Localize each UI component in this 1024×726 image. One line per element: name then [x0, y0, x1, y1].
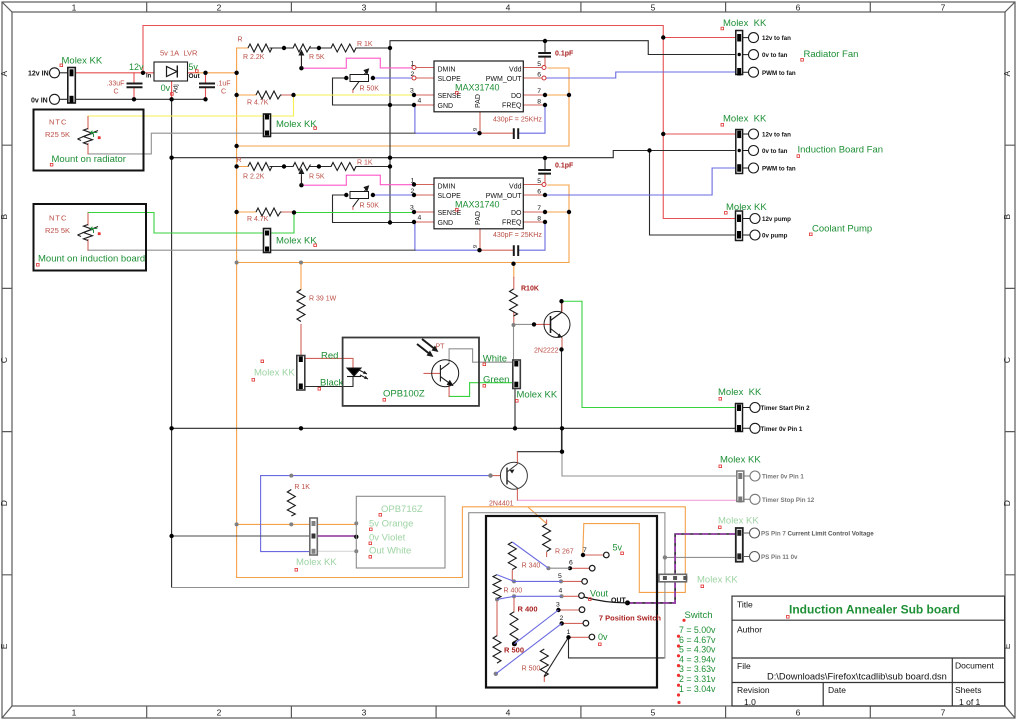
svg-text:R 39 1W: R 39 1W	[309, 296, 337, 303]
svg-text:5: 5	[537, 61, 541, 68]
svg-text:0.1pF: 0.1pF	[555, 163, 574, 170]
svg-text:6: 6	[537, 189, 541, 196]
svg-text:Out: Out	[189, 73, 201, 80]
svg-text:12v: 12v	[129, 62, 144, 72]
svg-text:R25 5K: R25 5K	[45, 226, 70, 235]
svg-text:Molex KK: Molex KK	[296, 557, 337, 568]
svg-text:Molex KK: Molex KK	[720, 455, 761, 466]
svg-text:NTC: NTC	[49, 213, 67, 222]
svg-text:MAX31740: MAX31740	[455, 200, 500, 210]
svg-text:Vdd: Vdd	[509, 66, 522, 73]
svg-text:4 = 3.94v: 4 = 3.94v	[679, 654, 716, 664]
svg-text:R 2.2K: R 2.2K	[243, 54, 265, 61]
svg-text:3 = 3.63v: 3 = 3.63v	[679, 664, 716, 674]
svg-text:Molex KK: Molex KK	[723, 114, 767, 125]
svg-text:R 5K: R 5K	[309, 54, 325, 61]
svg-text:A: A	[1002, 70, 1012, 76]
svg-text:MAX31740: MAX31740	[455, 83, 500, 93]
svg-text:2: 2	[411, 71, 415, 78]
svg-text:9: 9	[473, 128, 479, 131]
svg-text:DO: DO	[511, 93, 522, 100]
svg-text:430pF = 25KHz: 430pF = 25KHz	[493, 116, 542, 123]
svg-text:R 400: R 400	[518, 605, 538, 614]
svg-text:E: E	[0, 643, 9, 649]
svg-text:Revision: Revision	[737, 685, 770, 695]
svg-text:Date: Date	[828, 685, 846, 695]
svg-text:2: 2	[217, 708, 222, 718]
svg-text:2N2222: 2N2222	[534, 348, 559, 355]
svg-text:Molex KK: Molex KK	[718, 516, 759, 527]
svg-text:OPB100Z: OPB100Z	[383, 389, 425, 400]
svg-text:7 Position Switch: 7 Position Switch	[599, 614, 662, 623]
svg-text:Switch: Switch	[685, 610, 713, 621]
svg-text:0v to fan: 0v to fan	[762, 148, 788, 155]
svg-text:Radiator Fan: Radiator Fan	[804, 49, 859, 60]
svg-text:PAD: PAD	[475, 211, 482, 225]
svg-text:4: 4	[418, 98, 422, 105]
svg-text:File: File	[737, 661, 751, 671]
svg-text:Molex KK: Molex KK	[726, 202, 767, 213]
svg-text:3: 3	[410, 205, 414, 212]
svg-text:12v pump: 12v pump	[762, 216, 791, 223]
svg-text:R 50K: R 50K	[360, 203, 380, 210]
svg-text:R 500: R 500	[504, 646, 524, 655]
svg-text:Molex KK: Molex KK	[276, 236, 317, 247]
svg-text:0v: 0v	[161, 83, 171, 93]
svg-text:5v: 5v	[188, 62, 198, 72]
svg-text:NTC: NTC	[49, 117, 67, 126]
svg-text:2: 2	[560, 615, 564, 622]
svg-text:5v 1A LVR: 5v 1A LVR	[160, 49, 198, 58]
svg-text:7: 7	[537, 205, 541, 212]
svg-text:1 = 3.04v: 1 = 3.04v	[679, 684, 716, 694]
svg-text:R 1K: R 1K	[357, 41, 373, 48]
svg-text:4: 4	[418, 215, 422, 222]
svg-text:Title: Title	[737, 600, 753, 610]
svg-text:12v to fan: 12v to fan	[762, 132, 791, 139]
svg-text:0v pump: 0v pump	[762, 233, 788, 240]
svg-text:C: C	[0, 357, 9, 363]
svg-text:Induction Board Fan: Induction Board Fan	[798, 145, 884, 156]
svg-text:E: E	[1002, 643, 1012, 649]
svg-text:4: 4	[506, 3, 511, 13]
svg-text:R 2.2K: R 2.2K	[243, 174, 265, 181]
svg-text:Vout: Vout	[590, 589, 609, 599]
svg-text:0v Violet: 0v Violet	[369, 533, 406, 544]
svg-text:1.0: 1.0	[744, 697, 756, 707]
svg-text:12v IN: 12v IN	[28, 71, 49, 78]
svg-text:3: 3	[556, 602, 560, 609]
svg-text:R 340: R 340	[522, 563, 541, 570]
svg-text:Timer Start Pin 2: Timer Start Pin 2	[761, 405, 811, 412]
svg-text:OUT: OUT	[611, 598, 627, 605]
svg-text:Molex KK: Molex KK	[718, 387, 762, 398]
svg-text:0.1pF: 0.1pF	[555, 51, 574, 58]
svg-text:Adj: Adj	[174, 84, 180, 93]
svg-text:R 267: R 267	[555, 549, 574, 556]
svg-text:FREQ: FREQ	[502, 103, 522, 110]
svg-text:Black: Black	[320, 378, 343, 389]
svg-text:D:\Downloads\Firefox\tcadlib\s: D:\Downloads\Firefox\tcadlib\sub board.d…	[767, 672, 947, 682]
svg-text:6: 6	[796, 708, 801, 718]
svg-text:R: R	[237, 157, 242, 164]
svg-text:SLOPE: SLOPE	[438, 76, 462, 83]
svg-text:2: 2	[411, 188, 415, 195]
svg-text:7 = 5.00v: 7 = 5.00v	[679, 625, 716, 635]
svg-text:Timer 0v Pin 1: Timer 0v Pin 1	[762, 474, 804, 481]
svg-text:R25 5K: R25 5K	[45, 130, 70, 139]
svg-text:R 50K: R 50K	[360, 86, 380, 93]
svg-text:D: D	[0, 500, 9, 506]
svg-text:B: B	[1002, 214, 1012, 220]
svg-text:C: C	[1002, 357, 1012, 363]
svg-text:6: 6	[796, 3, 801, 13]
svg-text:R 400: R 400	[504, 588, 523, 595]
svg-text:C: C	[114, 89, 119, 96]
svg-text:.33uF: .33uF	[107, 81, 125, 88]
svg-text:A: A	[0, 70, 9, 76]
svg-text:2N4401: 2N4401	[489, 501, 514, 508]
svg-text:B: B	[0, 214, 9, 220]
svg-text:1: 1	[411, 178, 415, 185]
svg-text:White: White	[483, 354, 507, 365]
svg-text:2 = 3.31v: 2 = 3.31v	[679, 674, 716, 684]
svg-text:5: 5	[537, 178, 541, 185]
svg-text:Author: Author	[737, 625, 762, 635]
svg-text:9: 9	[473, 245, 479, 248]
svg-text:3: 3	[362, 708, 367, 718]
svg-text:R 1K: R 1K	[294, 484, 310, 491]
svg-text:OPB716Z: OPB716Z	[381, 504, 423, 515]
svg-text:Timer 0v Pin 1: Timer 0v Pin 1	[761, 426, 803, 433]
svg-text:6: 6	[569, 560, 573, 567]
svg-text:Vdd: Vdd	[509, 183, 522, 190]
svg-text:PWM to fan: PWM to fan	[762, 166, 796, 173]
svg-text:Red: Red	[321, 351, 338, 362]
svg-text:2: 2	[217, 3, 222, 13]
svg-text:SLOPE: SLOPE	[438, 193, 462, 200]
svg-text:5: 5	[651, 708, 656, 718]
svg-text:5v: 5v	[613, 543, 623, 553]
svg-text:Molex KK: Molex KK	[723, 18, 767, 29]
svg-text:7: 7	[941, 708, 946, 718]
svg-text:6 = 4.67v: 6 = 4.67v	[679, 635, 716, 645]
svg-text:Timer Stop Pin 12: Timer Stop Pin 12	[762, 497, 815, 504]
svg-text:Molex KK: Molex KK	[254, 368, 295, 379]
svg-text:Molex KK: Molex KK	[697, 575, 738, 586]
svg-text:7: 7	[537, 88, 541, 95]
svg-text:DO: DO	[511, 210, 522, 217]
svg-text:8: 8	[537, 215, 541, 222]
svg-text:PS Pin 11 0v: PS Pin 11 0v	[761, 554, 798, 561]
svg-text:DMIN: DMIN	[438, 183, 456, 190]
svg-text:430pF = 25KHz: 430pF = 25KHz	[493, 232, 542, 239]
svg-text:Out White: Out White	[369, 546, 411, 557]
svg-text:Mount on induction board: Mount on induction board	[38, 254, 145, 265]
svg-text:12v to fan: 12v to fan	[762, 35, 791, 42]
svg-text:0v to fan: 0v to fan	[762, 52, 788, 59]
svg-text:R 4.7K: R 4.7K	[247, 99, 269, 106]
svg-text:PT: PT	[436, 344, 446, 351]
svg-text:3: 3	[362, 3, 367, 13]
svg-text:6: 6	[537, 72, 541, 79]
svg-text:DMIN: DMIN	[438, 66, 456, 73]
svg-text:PAD: PAD	[475, 94, 482, 108]
svg-text:Induction Annealer Sub board: Induction Annealer Sub board	[789, 603, 960, 617]
svg-text:In: In	[146, 74, 152, 80]
svg-text:1: 1	[411, 61, 415, 68]
svg-text:R10K: R10K	[521, 286, 539, 293]
svg-text:.1uF: .1uF	[217, 81, 231, 88]
svg-text:Sheets: Sheets	[955, 685, 981, 695]
svg-text:PWM_OUT: PWM_OUT	[486, 193, 523, 200]
svg-text:4: 4	[559, 588, 563, 595]
svg-text:Mount on radiator: Mount on radiator	[52, 154, 126, 165]
svg-text:7: 7	[583, 547, 587, 554]
svg-text:Molex KK: Molex KK	[62, 56, 103, 67]
svg-text:PS Pin 7 Current Limit Control: PS Pin 7 Current Limit Control Voltage	[761, 531, 874, 538]
svg-text:Molex KK: Molex KK	[517, 390, 558, 401]
svg-text:0v IN: 0v IN	[31, 97, 48, 104]
svg-text:R 1K: R 1K	[357, 160, 373, 167]
svg-text:1 of 1: 1 of 1	[959, 697, 981, 707]
svg-text:PWM_OUT: PWM_OUT	[486, 76, 523, 83]
svg-text:Green: Green	[483, 375, 509, 386]
svg-text:7: 7	[941, 3, 946, 13]
svg-text:FREQ: FREQ	[502, 220, 522, 227]
svg-text:Document: Document	[955, 661, 994, 671]
svg-text:GND: GND	[438, 103, 454, 110]
svg-text:GND: GND	[438, 220, 454, 227]
svg-text:R 4.7K: R 4.7K	[247, 216, 269, 223]
svg-text:D: D	[1002, 500, 1012, 506]
svg-text:4: 4	[506, 708, 511, 718]
svg-text:5v Orange: 5v Orange	[369, 519, 413, 530]
svg-text:R 5K: R 5K	[309, 174, 325, 181]
svg-text:Molex KK: Molex KK	[276, 119, 317, 130]
svg-text:1: 1	[72, 708, 77, 718]
svg-text:R 500: R 500	[522, 666, 541, 673]
svg-text:C: C	[221, 89, 226, 96]
svg-text:0v: 0v	[598, 632, 608, 642]
svg-text:Coolant Pump: Coolant Pump	[812, 224, 872, 235]
svg-text:5: 5	[558, 573, 562, 580]
svg-text:8: 8	[537, 98, 541, 105]
svg-text:5: 5	[651, 3, 656, 13]
svg-text:5 = 4.30v: 5 = 4.30v	[679, 645, 716, 655]
svg-text:1: 1	[72, 3, 77, 13]
svg-text:R: R	[238, 37, 243, 44]
svg-text:3: 3	[410, 88, 414, 95]
svg-text:1: 1	[567, 629, 571, 636]
svg-text:PWM to fan: PWM to fan	[762, 70, 796, 77]
